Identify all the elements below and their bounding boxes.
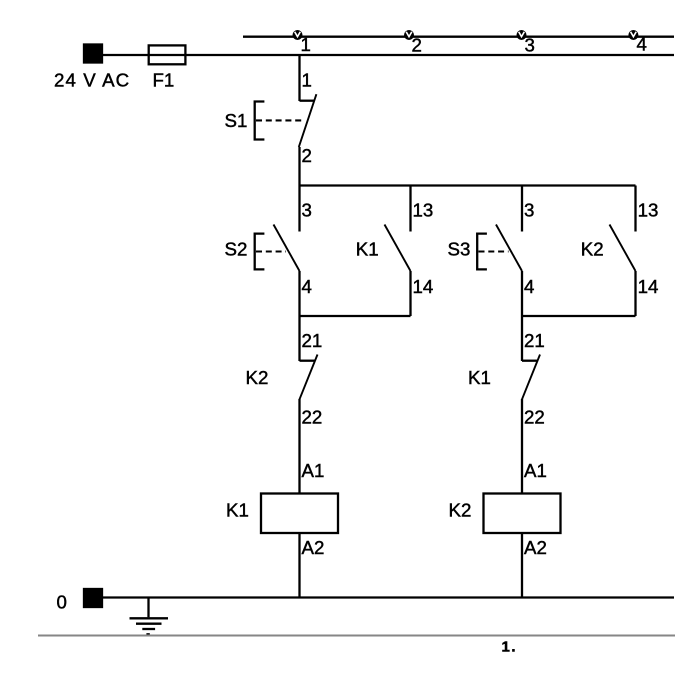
- svg-text:A1: A1: [302, 460, 325, 481]
- coil K2: [484, 494, 561, 534]
- svg-text:2: 2: [302, 145, 312, 166]
- node 3 pin marker: [517, 30, 527, 40]
- svg-text:K2: K2: [581, 239, 604, 260]
- wire: sub-branch down to NC contact K2: [298, 316, 300, 361]
- switch S2 normally-open pushbutton contact: [255, 225, 300, 272]
- wire: contact K1 to sub-branch: [409, 271, 411, 316]
- 24 V AC supply terminal square: [84, 45, 102, 63]
- wire: NC contact K1 to coil K2: [521, 399, 523, 494]
- interlock contact K1 normally-closed: [522, 355, 540, 400]
- svg-text:22: 22: [302, 407, 323, 428]
- svg-text:21: 21: [302, 330, 323, 351]
- svg-text:3: 3: [302, 200, 312, 221]
- interlock contact K2 normally-closed: [300, 355, 318, 400]
- contact K1 normally-open relay contact: [385, 225, 411, 272]
- wire: branch bus down to contact K1: [409, 186, 411, 232]
- wire: main rail to S1: [298, 55, 300, 101]
- sub-branch wire right: [522, 315, 636, 317]
- wire: coil K1 to bottom rail: [298, 533, 300, 598]
- svg-text:0: 0: [57, 592, 67, 613]
- svg-text:F1: F1: [153, 70, 175, 91]
- switch S1 normally-closed pushbutton contact: [255, 94, 317, 147]
- svg-text:14: 14: [638, 276, 659, 297]
- top control bus line: [243, 36, 674, 38]
- coil K1: [261, 494, 338, 534]
- wire: contact K2 to sub-branch: [634, 271, 636, 316]
- svg-text:1.: 1.: [502, 639, 518, 656]
- svg-text:2: 2: [412, 35, 422, 56]
- svg-text:A1: A1: [524, 460, 547, 481]
- fuse F1: [149, 45, 186, 64]
- bottom neutral rail wire: [102, 596, 674, 598]
- main supply rail wire: [102, 54, 674, 56]
- svg-text:3: 3: [524, 200, 534, 221]
- 0 V supply terminal square: [84, 589, 102, 607]
- svg-text:S1: S1: [225, 110, 248, 131]
- wire: branch bus down to contact K2: [634, 186, 636, 232]
- svg-text:14: 14: [413, 276, 434, 297]
- svg-text:K1: K1: [356, 239, 379, 260]
- svg-text:13: 13: [638, 200, 659, 221]
- wire: S2 to sub-branch node 4: [298, 271, 300, 316]
- svg-text:S3: S3: [448, 239, 471, 260]
- node 4 pin marker: [628, 30, 638, 40]
- svg-text:K2: K2: [246, 367, 269, 388]
- wire: branch bus down to S2: [298, 186, 300, 232]
- wire: coil K2 to bottom rail: [521, 533, 523, 598]
- svg-text:K1: K1: [226, 500, 249, 521]
- svg-text:24 V AC: 24 V AC: [54, 70, 130, 91]
- ground symbol: [130, 598, 169, 634]
- node 1 pin marker: [293, 30, 303, 40]
- svg-text:4: 4: [524, 276, 534, 297]
- wire: sub-branch down to NC contact K1: [521, 316, 523, 361]
- node 2 pin marker: [404, 30, 414, 40]
- svg-text:K2: K2: [449, 500, 472, 521]
- svg-text:K1: K1: [468, 367, 491, 388]
- page separator line: [38, 635, 675, 637]
- branch bus wire: [300, 184, 636, 186]
- svg-text:1: 1: [302, 70, 312, 91]
- wire: NC contact K2 to coil K1: [298, 399, 300, 494]
- wire: S3 to sub-branch node 4: [521, 271, 523, 316]
- svg-text:3: 3: [525, 35, 535, 56]
- svg-text:13: 13: [413, 200, 434, 221]
- wire: branch bus down to S3: [521, 186, 523, 232]
- svg-text:A2: A2: [524, 537, 547, 558]
- contact K2 normally-open relay contact: [610, 225, 636, 272]
- svg-text:1: 1: [301, 34, 311, 55]
- sub-branch wire left: [300, 315, 411, 317]
- svg-text:21: 21: [524, 330, 545, 351]
- switch S3 normally-open pushbutton contact: [477, 225, 522, 272]
- svg-text:S2: S2: [225, 239, 248, 260]
- wire: S1 to branch bus, node 2: [298, 147, 300, 186]
- svg-text:22: 22: [524, 407, 545, 428]
- svg-text:4: 4: [637, 34, 647, 55]
- svg-text:A2: A2: [302, 537, 325, 558]
- svg-text:4: 4: [302, 276, 312, 297]
